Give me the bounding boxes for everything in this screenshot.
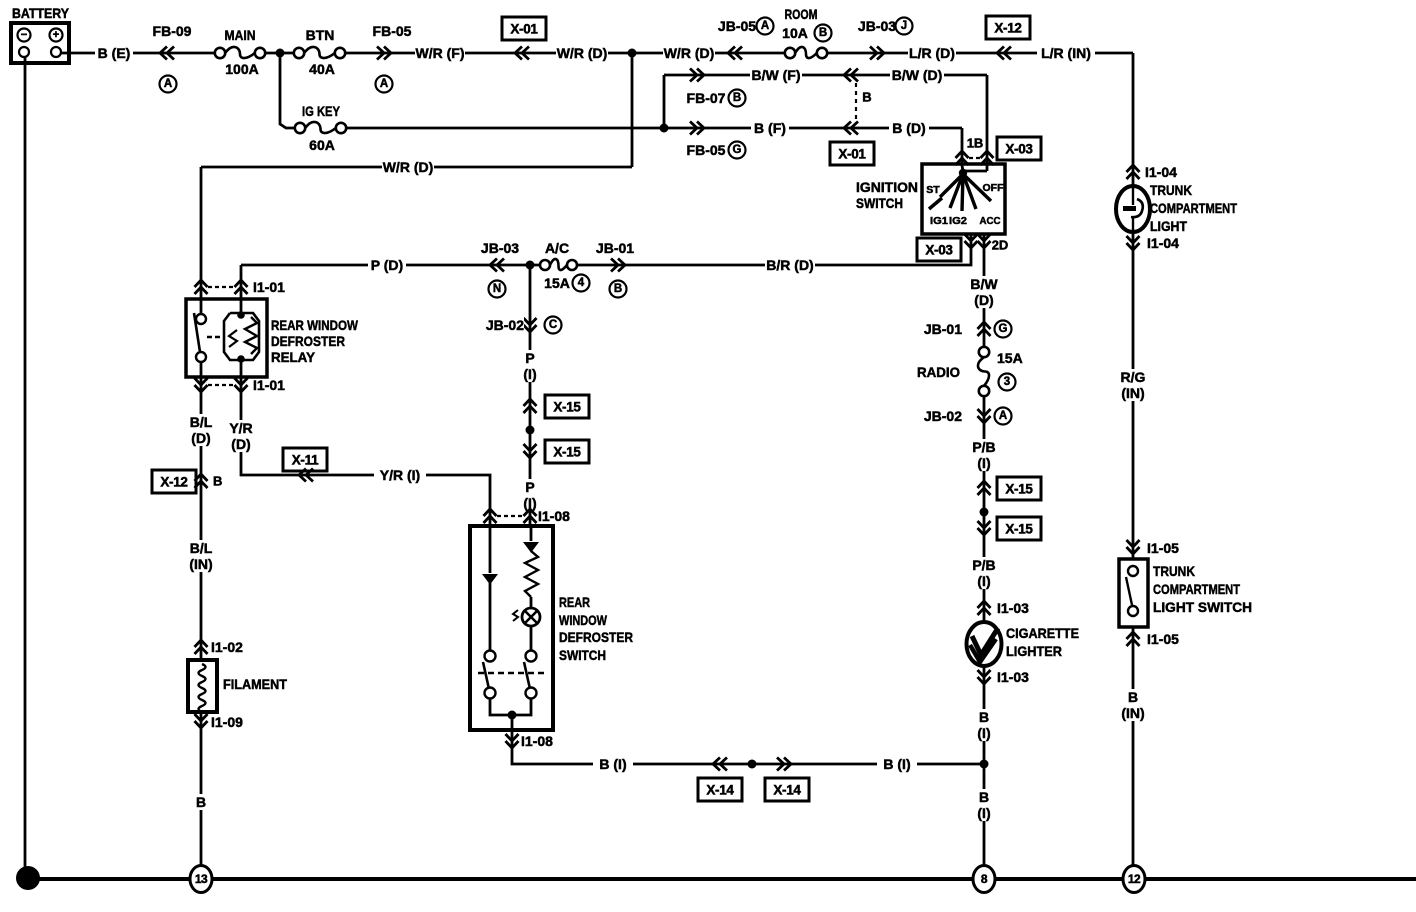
label B/W (F) <box>750 67 802 83</box>
svg-text:B: B <box>213 474 222 489</box>
svg-text:JB-01: JB-01 <box>924 321 962 337</box>
label REAR WINDOW DEFROSTER RELAY <box>271 317 359 365</box>
svg-text:B (F): B (F) <box>754 120 786 136</box>
svg-text:X-12: X-12 <box>994 21 1021 36</box>
connector JB-02 C <box>482 317 562 334</box>
svg-text:IG1: IG1 <box>930 215 948 227</box>
svg-text:(I): (I) <box>977 455 990 471</box>
svg-text:FB-07: FB-07 <box>687 90 726 106</box>
wire: B/L (D) from relay down <box>200 377 203 660</box>
svg-text:B (I): B (I) <box>599 756 626 772</box>
fuse IG KEY 60A <box>295 103 346 153</box>
svg-text:I1-04: I1-04 <box>1145 164 1177 180</box>
svg-text:40A: 40A <box>309 61 335 77</box>
svg-text:(IN): (IN) <box>1121 705 1144 721</box>
svg-text:JB-01: JB-01 <box>596 240 634 256</box>
connector I1-08 chevrons into switch <box>484 508 571 524</box>
svg-text:P/B: P/B <box>972 439 995 455</box>
svg-text:A: A <box>380 78 388 90</box>
fuse A/C 15A <box>540 240 590 292</box>
svg-text:W/R (D): W/R (D) <box>664 45 715 61</box>
fuse BTN 40A <box>294 27 345 77</box>
svg-text:DEFROSTER: DEFROSTER <box>271 333 345 349</box>
label L/R (IN) <box>1037 45 1095 61</box>
svg-text:JB-02: JB-02 <box>924 408 962 424</box>
svg-text:(D): (D) <box>191 430 210 446</box>
fuse RADIO 15A <box>917 347 1023 396</box>
svg-text:(IN): (IN) <box>189 556 212 572</box>
svg-text:I1-04: I1-04 <box>1147 235 1179 251</box>
svg-text:A: A <box>164 78 172 90</box>
svg-text:X-15: X-15 <box>1005 482 1033 497</box>
svg-text:1B: 1B <box>967 136 984 151</box>
label P (I) <box>518 350 542 382</box>
svg-text:Y/R (I): Y/R (I) <box>380 467 420 483</box>
svg-text:BATTERY: BATTERY <box>12 5 70 21</box>
connector B splice upper chevron <box>844 69 851 82</box>
ground node 8 <box>973 866 995 893</box>
connector I1-03 upper <box>978 600 1030 616</box>
svg-text:(I): (I) <box>977 573 990 589</box>
label B (IN) <box>1118 689 1148 721</box>
ground node G <box>16 866 40 890</box>
label IGNITION SWITCH <box>856 179 918 211</box>
svg-text:X-15: X-15 <box>553 445 581 460</box>
label P/B (I) <box>970 439 998 471</box>
svg-text:X-15: X-15 <box>553 400 581 415</box>
junction at W/R (D) drop <box>628 49 637 58</box>
label B (I) above junction <box>972 709 996 741</box>
label B (I) left <box>593 756 633 772</box>
label W/R (D) <box>556 45 608 61</box>
battery B+ junction to BTN/IG KEY <box>276 49 285 58</box>
label CIGARETTE LIGHTER <box>1006 625 1079 659</box>
svg-text:(IN): (IN) <box>1121 385 1144 401</box>
svg-text:N: N <box>493 283 501 295</box>
label Y/R (D) <box>227 420 255 452</box>
svg-text:(D): (D) <box>974 292 993 308</box>
svg-text:ROOM: ROOM <box>785 6 818 22</box>
svg-text:SWITCH: SWITCH <box>856 195 903 211</box>
svg-text:12: 12 <box>1128 872 1141 886</box>
connector I1-04 lower <box>1127 235 1180 251</box>
svg-text:X-01: X-01 <box>510 22 538 37</box>
connector FB-05 <box>373 23 412 93</box>
svg-text:8: 8 <box>981 872 988 886</box>
connector X-01 on top bus <box>502 17 546 60</box>
svg-text:IG KEY: IG KEY <box>302 103 341 119</box>
fuse MAIN 100A <box>215 27 265 77</box>
label B/W (D) <box>890 67 944 83</box>
wire: ignition switch 1B feed drop <box>961 128 964 165</box>
connector I1-02 <box>195 639 252 655</box>
svg-text:C: C <box>549 319 557 331</box>
connector I1-04 upper <box>1127 164 1186 180</box>
svg-text:X-11: X-11 <box>292 453 319 468</box>
label B (E) <box>95 45 133 61</box>
svg-text:LIGHT: LIGHT <box>1150 218 1187 234</box>
svg-text:FB-05: FB-05 <box>687 142 726 158</box>
connector X-15 lower on P/B line <box>978 517 1042 540</box>
label B/L (D) <box>187 414 215 446</box>
svg-text:P: P <box>525 479 534 495</box>
wire: IG KEY branch from junction <box>280 53 300 128</box>
connector I1-08 out of switch <box>506 733 554 749</box>
label L/R (D) <box>908 45 956 61</box>
wire: ignition switch IG feed drop <box>986 75 989 171</box>
svg-text:B/W (D): B/W (D) <box>892 67 943 83</box>
connector JB-01 G <box>920 321 1012 338</box>
svg-text:WINDOW: WINDOW <box>559 612 608 628</box>
junction of P (D) branch <box>526 261 535 270</box>
svg-text:J: J <box>901 20 907 32</box>
svg-text:B (I): B (I) <box>883 756 910 772</box>
label TRUNK COMPARTMENT LIGHT SWITCH <box>1153 563 1252 615</box>
wire: relay coil feed down left column <box>200 167 203 299</box>
battery BATTERY <box>11 5 70 63</box>
label B <box>193 794 209 810</box>
svg-text:B (E): B (E) <box>98 45 131 61</box>
svg-text:(D): (D) <box>231 436 250 452</box>
svg-text:BTN: BTN <box>306 27 335 43</box>
svg-text:X-15: X-15 <box>1005 522 1033 537</box>
svg-text:A/C: A/C <box>545 240 569 256</box>
wire: P (D) line left of A/C fuse <box>241 264 545 267</box>
svg-text:I1-08: I1-08 <box>538 508 570 524</box>
svg-text:P (D): P (D) <box>371 257 403 273</box>
svg-text:CIGARETTE: CIGARETTE <box>1006 625 1079 641</box>
connector X-12 B <box>152 470 222 493</box>
svg-text:15A: 15A <box>544 275 570 291</box>
svg-text:13: 13 <box>195 872 208 886</box>
svg-text:I1-02: I1-02 <box>211 639 243 655</box>
svg-text:A: A <box>761 20 769 32</box>
junction at lighter ground line <box>980 760 989 769</box>
ground node 12 <box>1123 866 1145 893</box>
label B (I) right <box>877 756 917 772</box>
label B/W (D) <box>968 276 1000 308</box>
svg-text:X-12: X-12 <box>160 475 187 490</box>
svg-text:OFF: OFF <box>983 182 1005 194</box>
svg-text:COMPARTMENT: COMPARTMENT <box>1153 581 1240 597</box>
label W/R (D) on horizontal run <box>382 159 434 175</box>
connector I1-03 lower <box>978 669 1030 685</box>
svg-text:I1-05: I1-05 <box>1147 631 1179 647</box>
svg-text:X-03: X-03 <box>925 243 953 258</box>
svg-text:I1-08: I1-08 <box>521 733 553 749</box>
svg-text:RELAY: RELAY <box>271 349 316 365</box>
svg-text:FB-05: FB-05 <box>373 23 412 39</box>
connector FB-07 B on B/W line <box>687 69 746 107</box>
cigarette lighter E1 <box>967 622 1002 666</box>
svg-text:X-14: X-14 <box>706 783 734 798</box>
svg-text:IG2: IG2 <box>949 215 967 227</box>
connector X-15 upper on P line <box>524 395 590 418</box>
junction dot between X-15 halves <box>526 426 535 435</box>
svg-text:G: G <box>24 872 33 884</box>
svg-text:L/R (D): L/R (D) <box>909 45 955 61</box>
svg-text:B: B <box>979 789 989 805</box>
svg-text:B: B <box>1128 689 1138 705</box>
svg-text:REAR WINDOW: REAR WINDOW <box>271 317 359 333</box>
svg-text:LIGHT SWITCH: LIGHT SWITCH <box>1153 599 1252 615</box>
wire: P/B (I) down to cigarette lighter <box>983 396 986 866</box>
connector FB-09 <box>153 23 192 93</box>
ignition switch U1 <box>922 164 1005 234</box>
svg-text:JB-03: JB-03 <box>481 240 519 256</box>
svg-text:B: B <box>819 27 827 39</box>
label B/R (D) <box>765 257 815 273</box>
svg-text:W/R (D): W/R (D) <box>383 159 434 175</box>
svg-text:FILAMENT: FILAMENT <box>223 676 287 692</box>
connector 1B chevrons into ignition switch <box>956 136 994 166</box>
svg-text:100A: 100A <box>225 61 258 77</box>
svg-text:2D: 2D <box>992 238 1009 253</box>
svg-text:15A: 15A <box>997 350 1023 366</box>
svg-text:B: B <box>862 90 871 105</box>
connector I1-01 upper chevrons <box>195 279 286 295</box>
svg-text:B/W (F): B/W (F) <box>752 67 801 83</box>
svg-text:ST: ST <box>926 184 940 196</box>
svg-text:Y/R: Y/R <box>229 420 252 436</box>
svg-text:B/L: B/L <box>190 540 213 556</box>
label B (I) below junction <box>972 789 996 821</box>
svg-text:X-14: X-14 <box>773 783 801 798</box>
label P (D) <box>368 257 406 273</box>
wire: L/R (IN) drop down right column <box>1132 53 1135 186</box>
svg-text:L/R (IN): L/R (IN) <box>1041 45 1091 61</box>
svg-text:+: + <box>53 29 59 41</box>
wire: riser to B/W (F) line <box>663 75 666 128</box>
svg-text:ACC: ACC <box>980 215 1001 227</box>
connector X-15 upper on P/B line <box>978 477 1042 500</box>
ground bus at bottom <box>28 877 1416 881</box>
svg-text:REAR: REAR <box>559 594 590 610</box>
wire: battery positive feed B (E) top bus <box>61 52 218 55</box>
label P/B (I) lower <box>970 557 998 589</box>
wire: W/R (D) line to relay column <box>201 166 632 169</box>
connector JB-03 J <box>858 18 913 60</box>
label W/R (F) <box>415 45 465 61</box>
svg-text:MAIN: MAIN <box>225 27 256 43</box>
svg-text:B: B <box>733 92 741 104</box>
bulb L1 TRUNK COMPARTMENT LIGHT <box>1116 186 1150 232</box>
connector X-14 pair <box>698 758 809 802</box>
wire: Y/R (D) from relay to defroster switch <box>241 377 490 526</box>
svg-text:B: B <box>196 794 206 810</box>
label P (I) lower <box>518 479 542 511</box>
dashed link of connector B <box>855 83 857 119</box>
wire: ignition switch IG1 out B/W (D) down lighter column <box>983 234 986 347</box>
svg-text:JB-05: JB-05 <box>718 18 756 34</box>
wire: B (I) from defroster switch to lighter column <box>512 730 984 764</box>
filament R1 FILAMENT rear window defroster grid <box>188 660 217 712</box>
connector X-03 label lower <box>917 238 961 261</box>
connector I1-05 lower <box>1127 631 1180 647</box>
svg-text:3: 3 <box>1004 376 1010 388</box>
ground node 13 <box>190 866 212 893</box>
svg-text:W/R (F): W/R (F) <box>416 45 465 61</box>
svg-text:W/R (D): W/R (D) <box>557 45 608 61</box>
connector X-01 on B line <box>830 122 874 166</box>
svg-text:(I): (I) <box>977 725 990 741</box>
wire: B (F) line from IG KEY fuse to ignition switch <box>346 127 962 130</box>
wire: battery ground lead down left side <box>24 57 27 876</box>
wire: B (IN) to ground node 12 <box>1132 627 1135 866</box>
svg-text:FB-09: FB-09 <box>153 23 192 39</box>
connector JB-03 N <box>481 240 519 298</box>
svg-text:B: B <box>979 709 989 725</box>
svg-text:−: − <box>21 29 27 41</box>
svg-text:RADIO: RADIO <box>917 364 960 380</box>
svg-text:10A: 10A <box>782 25 808 41</box>
svg-text:TRUNK: TRUNK <box>1150 182 1192 198</box>
connector X-15 lower on P line <box>524 440 590 463</box>
connector JB-05 A <box>718 18 774 60</box>
connector I1-01 lower chevrons <box>195 377 286 393</box>
wire: B to ground node 13 <box>200 712 203 866</box>
label TRUNK COMPARTMENT LIGHT <box>1150 182 1237 234</box>
wire: B/W (F) line to ignition switch <box>664 74 987 77</box>
svg-text:LIGHTER: LIGHTER <box>1006 643 1062 659</box>
svg-text:X-01: X-01 <box>838 147 866 162</box>
svg-text:I1-03: I1-03 <box>997 600 1029 616</box>
wire: ignition switch ACC out to B/R (D) line <box>572 234 971 265</box>
svg-text:4: 4 <box>578 277 585 289</box>
connector X-03 label upper <box>997 137 1041 160</box>
wire: P (I) branch down to defroster switch <box>529 265 532 526</box>
svg-text:A: A <box>999 410 1007 422</box>
fuse ROOM 10A <box>782 6 831 58</box>
connector JB-02 A <box>920 408 1012 425</box>
connector JB-01 B <box>596 240 634 298</box>
connector X-12 on top bus <box>986 16 1030 60</box>
svg-text:SWITCH: SWITCH <box>559 647 606 663</box>
svg-text:B/L: B/L <box>190 414 213 430</box>
junction dot between X-15 halves on P/B line <box>980 508 989 517</box>
connector I1-09 <box>195 714 252 730</box>
label B (F) <box>751 120 789 136</box>
svg-text:JB-02: JB-02 <box>486 317 524 333</box>
svg-text:I1-05: I1-05 <box>1147 540 1179 556</box>
svg-text:I1-01: I1-01 <box>253 279 285 295</box>
svg-text:B/R (D): B/R (D) <box>766 257 813 273</box>
label Y/R (I) <box>374 467 426 483</box>
junction of B (F) and B/W (F) branch <box>660 124 669 133</box>
svg-text:I1-03: I1-03 <box>997 669 1029 685</box>
svg-text:B: B <box>614 283 622 295</box>
switch S1 REAR WINDOW DEFROSTER SWITCH <box>470 526 553 730</box>
svg-text:I1-01: I1-01 <box>253 377 285 393</box>
connector 2D chevrons out of ignition switch <box>965 234 1009 253</box>
svg-text:IGNITION: IGNITION <box>856 179 918 195</box>
label B/L (IN) <box>186 540 216 572</box>
connector FB-05 G on B line <box>687 122 746 159</box>
svg-text:TRUNK: TRUNK <box>1153 563 1195 579</box>
connector I1-05 upper <box>1127 540 1188 556</box>
svg-text:G: G <box>733 144 742 156</box>
wire: P (D) drop to relay coil <box>240 265 243 299</box>
svg-text:COMPARTMENT: COMPARTMENT <box>1150 200 1237 216</box>
svg-text:B/W: B/W <box>970 276 998 292</box>
label W/R (D) right of junction <box>663 45 715 61</box>
svg-text:I1-09: I1-09 <box>211 714 243 730</box>
wire: W/R (D) drop from top bus <box>631 53 634 167</box>
svg-text:DEFROSTER: DEFROSTER <box>559 629 633 645</box>
label B (D) <box>889 120 929 136</box>
svg-text:B (D): B (D) <box>892 120 925 136</box>
svg-text:G: G <box>999 323 1008 335</box>
svg-text:JB-03: JB-03 <box>858 18 896 34</box>
svg-text:R/G: R/G <box>1121 369 1146 385</box>
svg-text:(I): (I) <box>977 805 990 821</box>
svg-text:P: P <box>525 350 534 366</box>
svg-text:60A: 60A <box>309 137 335 153</box>
label REAR WINDOW DEFROSTER SWITCH <box>559 594 633 663</box>
wire: R/G (IN) down to trunk light switch <box>1132 232 1135 559</box>
svg-text:P/B: P/B <box>972 557 995 573</box>
svg-text:(I): (I) <box>523 366 536 382</box>
relay K1 REAR WINDOW DEFROSTER RELAY <box>186 299 267 377</box>
svg-text:X-03: X-03 <box>1005 142 1033 157</box>
connector X-11 <box>283 448 327 482</box>
label R/G (IN) <box>1118 369 1148 401</box>
switch S2 TRUNK COMPARTMENT LIGHT SWITCH <box>1119 559 1148 627</box>
